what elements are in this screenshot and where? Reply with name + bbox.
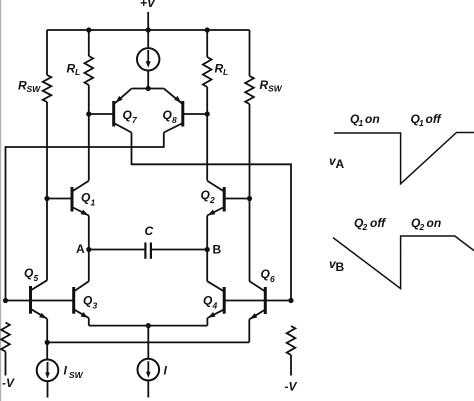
svg-text:5: 5 <box>34 273 39 283</box>
-V label left <box>2 376 15 390</box>
wire R_L-right to Q2 collector <box>206 87 208 181</box>
wire Q5 emitter drop <box>46 319 48 343</box>
label Q2 off <box>354 216 386 232</box>
wire Q7 collector to right bases <box>132 133 292 301</box>
svg-text:B: B <box>336 260 345 274</box>
svg-text:2: 2 <box>419 222 425 232</box>
wire node A to capacitor <box>89 249 146 251</box>
svg-text:-V: -V <box>285 380 298 394</box>
wire Q5/Q6 emitter rail <box>47 341 249 343</box>
transistor Q4 <box>203 281 224 318</box>
waveform vB <box>329 236 474 289</box>
wire I_SW source to bottom <box>47 381 49 397</box>
node dot Q1 base <box>44 196 49 201</box>
capacitor C <box>145 224 154 259</box>
wire tap to I_SW source <box>46 342 48 359</box>
svg-text:Q: Q <box>201 188 211 202</box>
svg-text:Q: Q <box>261 267 271 281</box>
wire R_L-left top <box>88 30 90 56</box>
wire Q4 emitter drop <box>206 318 208 326</box>
wire Q3 emitter drop <box>88 318 90 326</box>
node dot left base junction <box>3 298 8 303</box>
svg-text:Q: Q <box>123 108 133 122</box>
transistor Q7 <box>114 89 138 133</box>
node A <box>76 242 91 256</box>
svg-text:off: off <box>426 112 442 126</box>
svg-text:1: 1 <box>91 198 96 208</box>
wire R_SW-left to Q1 base node <box>46 102 48 199</box>
scan edge artifact <box>0 0 2 401</box>
wire node B to Q4 collector <box>206 250 208 282</box>
label Q1 on <box>350 112 380 128</box>
wire Q8 collector to left bases <box>6 133 164 301</box>
wire +V rail <box>47 29 250 31</box>
label Q2 on <box>411 216 441 232</box>
svg-text:Q: Q <box>163 108 173 122</box>
svg-text:on: on <box>427 216 442 230</box>
waveform vA <box>329 133 474 184</box>
wire Q2 emitter to node B <box>206 216 208 250</box>
svg-text:Q: Q <box>24 266 34 280</box>
node dot rail-center <box>146 27 151 32</box>
wire Q8 base <box>183 113 207 115</box>
svg-text:SW: SW <box>69 370 84 380</box>
resistor R_L left <box>67 56 94 85</box>
wire capacitor to node B <box>151 249 207 251</box>
wire R_SW-left top <box>46 30 48 75</box>
svg-text:2: 2 <box>209 195 215 205</box>
svg-text:off: off <box>370 216 386 230</box>
svg-text:4: 4 <box>212 301 218 311</box>
node dot Q2 base <box>247 196 252 201</box>
svg-text:1: 1 <box>419 118 424 128</box>
node dot right base junction <box>288 298 293 303</box>
wire R_SW-right to Q2 base node <box>249 104 251 199</box>
node B <box>205 243 222 257</box>
node dot rail-right (RL) <box>205 27 210 32</box>
wire Q7 base <box>89 113 114 115</box>
wire Q4/Q6 base line <box>224 300 291 302</box>
svg-text:Q: Q <box>81 191 91 205</box>
transistor Q1 <box>47 181 96 216</box>
wire node A to Q3 collector <box>88 250 90 282</box>
svg-text:L: L <box>223 67 228 77</box>
svg-text:1: 1 <box>359 118 364 128</box>
svg-text:Q: Q <box>203 294 213 308</box>
label Q1 off <box>411 112 442 128</box>
resistor R_L right <box>203 57 228 87</box>
svg-text:L: L <box>75 67 80 77</box>
svg-text:A: A <box>336 157 345 171</box>
resistor left bias (to -V) <box>1 323 10 352</box>
node dot I_SW tap <box>45 340 50 345</box>
wire Q1-base node to Q5 collector <box>46 199 48 281</box>
svg-text:SW: SW <box>268 84 283 94</box>
wire Q1 emitter to node A <box>88 216 90 250</box>
wire right resistor to -V <box>290 355 292 376</box>
+V label <box>140 0 156 10</box>
svg-text:A: A <box>76 242 85 256</box>
resistor R_SW right <box>245 76 282 104</box>
wire R_L-left to Q1 collector <box>88 85 90 181</box>
resistor right bias (to -V) <box>287 326 296 355</box>
svg-text:SW: SW <box>27 84 42 94</box>
transistor Q3 <box>74 281 98 318</box>
wire center tap to I source <box>147 326 149 359</box>
node dot Q7 base junction <box>86 111 91 116</box>
wire Q6 emitter drop <box>248 319 250 342</box>
wire left resistor to -V <box>5 352 7 376</box>
wire R_SW-right top <box>249 30 251 76</box>
transistor Q6 <box>249 267 275 319</box>
wire I source to bottom <box>147 380 149 397</box>
resistor R_SW left <box>18 75 51 102</box>
wire source to Q7/Q8 emitters <box>132 71 164 89</box>
svg-text:-V: -V <box>2 376 15 390</box>
node dot Q8 base junction <box>205 111 210 116</box>
svg-text:8: 8 <box>172 115 177 125</box>
svg-text:Q: Q <box>83 294 93 308</box>
node dot emitter rail center <box>146 323 151 328</box>
node dot rail-left (RL) <box>86 27 91 32</box>
transistor Q5 <box>24 266 47 319</box>
transistor Q8 <box>163 89 183 133</box>
node dot emitter header <box>146 86 151 91</box>
svg-text:6: 6 <box>270 274 275 284</box>
current source I <box>138 359 168 381</box>
wire +V stem <box>147 12 149 48</box>
current source (top bias) <box>137 48 159 70</box>
transistor Q2 <box>201 181 250 216</box>
svg-text:B: B <box>213 243 222 257</box>
wire Q2-base node to Q6 collector <box>249 199 251 282</box>
svg-text:2: 2 <box>362 222 368 232</box>
svg-text:3: 3 <box>93 301 98 311</box>
wire Q3/Q4 emitter rail <box>89 325 208 327</box>
-V label right <box>285 380 298 394</box>
wire Q5/Q3 base line <box>6 300 74 302</box>
current source I_SW <box>37 360 84 382</box>
wire R_L-right top <box>206 30 208 57</box>
svg-text:C: C <box>145 224 154 238</box>
svg-text:on: on <box>365 112 380 126</box>
svg-text:+V: +V <box>140 0 156 10</box>
